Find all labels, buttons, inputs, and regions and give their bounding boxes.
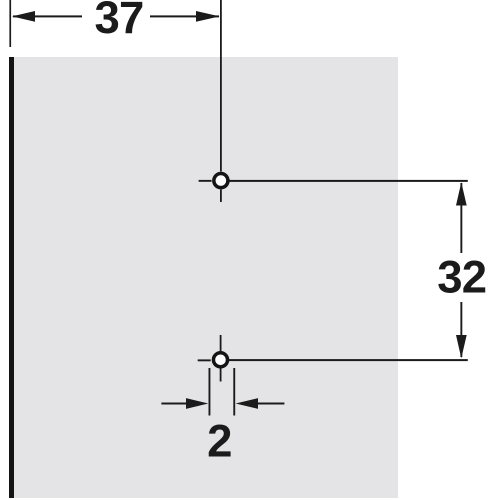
dim 32 vertical line upper segment xyxy=(460,183,462,253)
hole H1 (circle) xyxy=(214,174,228,188)
svg-text:32: 32 xyxy=(437,252,486,303)
hole H2 top cross arm xyxy=(220,335,222,352)
hole H1 right cross arm / extension line to dim 32 top xyxy=(229,180,467,182)
svg-text:37: 37 xyxy=(94,0,143,43)
dimension line 37 right segment xyxy=(150,15,219,17)
arrowhead right-pointing of dim 2 xyxy=(186,398,208,409)
hole centre line (vertical through holes, extension of dim 37) xyxy=(220,0,222,172)
arrowhead left of dim 37 xyxy=(12,11,35,22)
arrowhead left-pointing of dim 2 xyxy=(236,398,258,409)
board front edge (thick line) xyxy=(9,57,14,498)
dim 2 left arrow line xyxy=(161,403,189,405)
extension line right of dim 2 xyxy=(233,368,235,416)
arrowhead down of dim 32 xyxy=(456,335,467,358)
arrowhead right of dim 37 xyxy=(196,11,220,22)
hole H1 left cross arm xyxy=(199,180,212,182)
hole H2 bottom cross arm xyxy=(220,368,222,381)
hole H2 left cross arm xyxy=(198,359,211,361)
hole H1 bottom cross arm xyxy=(220,190,222,203)
extension line left of dim 2 xyxy=(209,368,211,416)
svg-text:2: 2 xyxy=(207,416,232,467)
dimension line 37 left segment xyxy=(13,15,82,17)
hole H2 right cross arm / extension line to dim 32 bottom xyxy=(229,359,468,361)
extension line left of dim 37 xyxy=(9,0,11,47)
arrowhead up of dim 32 xyxy=(456,182,467,205)
dim 32 vertical line lower segment xyxy=(460,302,462,357)
panel (board face) xyxy=(14,57,398,498)
dim 2 right arrow line xyxy=(256,403,284,405)
hole H2 (circle) xyxy=(213,353,227,367)
